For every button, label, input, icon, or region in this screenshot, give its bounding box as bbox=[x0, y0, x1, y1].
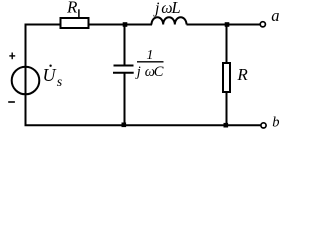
voltage source Us bbox=[12, 67, 40, 95]
svg-text:1: 1 bbox=[146, 48, 153, 63]
svg-text:U: U bbox=[43, 65, 57, 85]
wire: left vertical branch bbox=[25, 24, 27, 126]
junction: bottom capacitor node bbox=[122, 123, 127, 128]
label Us value bbox=[43, 65, 63, 90]
junction: bottom resistor node bbox=[224, 123, 229, 128]
wire: top rail middle segment bbox=[89, 24, 152, 26]
inductor L bbox=[152, 17, 187, 24]
svg-text:jωC: jωC bbox=[135, 64, 164, 80]
wire: resistor R branch upper bbox=[226, 25, 228, 64]
wire: resistor R branch lower bbox=[226, 92, 228, 125]
label + polarity mark bbox=[9, 53, 15, 60]
wire: bottom rail bbox=[25, 124, 262, 126]
resistor Ri bbox=[61, 18, 89, 28]
label - polarity mark bbox=[8, 101, 15, 103]
wire: capacitor branch upper bbox=[124, 25, 126, 66]
svg-text:jωL: jωL bbox=[153, 0, 181, 17]
resistor R bbox=[223, 63, 230, 92]
terminal a bbox=[260, 22, 265, 27]
svg-text:a: a bbox=[271, 6, 279, 25]
terminal b bbox=[261, 123, 266, 128]
svg-text:R: R bbox=[66, 0, 78, 16]
svg-text:R: R bbox=[236, 65, 248, 84]
capacitor C bbox=[113, 66, 134, 73]
junction: top capacitor node bbox=[123, 22, 128, 27]
junction: top resistor node bbox=[225, 22, 230, 27]
label Ri bbox=[66, 0, 79, 18]
wire: top rail left segment bbox=[25, 24, 61, 26]
svg-text:b: b bbox=[272, 115, 279, 131]
wire: capacitor branch lower bbox=[124, 73, 126, 126]
svg-text:s: s bbox=[57, 75, 63, 90]
wire: top rail right segment bbox=[187, 24, 261, 26]
label 1/jwC fraction bbox=[135, 48, 164, 80]
